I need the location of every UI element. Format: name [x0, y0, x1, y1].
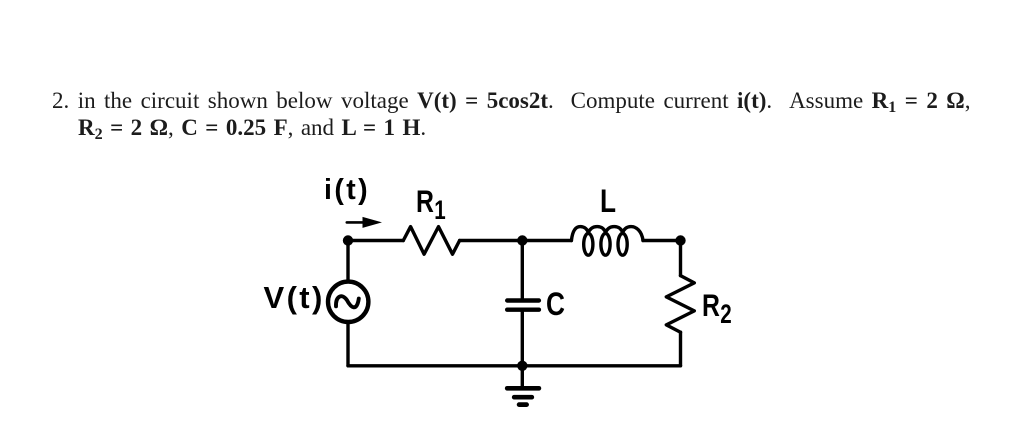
capacitor C bottom plate [507, 308, 539, 312]
wire middle node down to capacitor [521, 241, 524, 299]
node dot bottom middle [517, 361, 527, 371]
wire right node down to R2 [679, 241, 682, 276]
ground bar 2 [514, 395, 532, 400]
AC source V(t) circle [328, 282, 368, 322]
wire middle node to inductor [522, 239, 571, 242]
node dot middle top [517, 235, 527, 245]
wire source to bottom left corner [346, 322, 349, 366]
node dot top right [675, 235, 685, 245]
problem text line 1 [52, 88, 970, 114]
label R1 [416, 186, 446, 218]
resistor R1 [403, 227, 459, 255]
wire left rail top (node to source) [346, 241, 349, 282]
label L [600, 185, 616, 217]
inductor L loop 1 [584, 233, 593, 255]
AC source sine symbol [336, 296, 359, 307]
label C [546, 288, 565, 320]
ground stub [521, 366, 524, 386]
label V(t) [264, 282, 325, 313]
label R2 [702, 290, 732, 322]
wire inductor to top right node [643, 239, 681, 242]
resistor R2 [666, 276, 694, 333]
label i(t) [324, 176, 370, 205]
capacitor C top plate [507, 298, 539, 302]
wire top left segment [348, 239, 403, 242]
current arrow i(t) [347, 217, 382, 228]
bottom wire [348, 364, 681, 367]
problem text line 2 [78, 115, 426, 141]
wire R1 to middle node [460, 239, 523, 242]
wire R2 to bottom right corner [679, 332, 682, 366]
node dot top left [343, 235, 353, 245]
inductor L humps [571, 227, 643, 241]
ground bar 3 [519, 402, 527, 407]
wire capacitor to bottom node [521, 312, 524, 366]
inductor L loop 2 [601, 233, 610, 255]
ground bar 1 [507, 386, 539, 391]
inductor L loop 3 [618, 233, 627, 255]
